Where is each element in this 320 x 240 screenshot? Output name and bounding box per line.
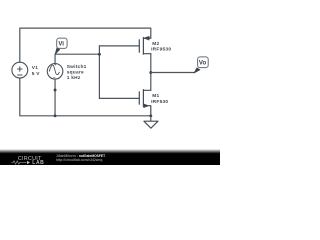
wire V1 bottom / bottom rail — [20, 78, 151, 116]
wire V1 top / VDD top rail / M2 source — [20, 28, 151, 62]
wire M2 drain to node Vo to M1 drain — [150, 54, 152, 91]
node junction Vi wire to gate bus — [98, 53, 101, 56]
wire Switch1 top to node Vi — [55, 54, 99, 63]
voltage source Switch1 — [47, 64, 63, 80]
wire M1 gate — [99, 97, 139, 99]
ground — [144, 116, 158, 128]
node junction M1 source / ground — [149, 114, 152, 117]
node junction Switch1-rail — [54, 114, 57, 117]
node flag Vo — [194, 57, 208, 73]
footer watermark bar — [0, 149, 220, 166]
wire M2 gate — [99, 45, 139, 47]
logo CircuitLab — [0, 0, 220, 165]
wire Switch1 bottom to rail — [54, 79, 56, 116]
transistor M1 (NMOS IRF530) — [139, 90, 151, 116]
node junction Switch1 pin — [54, 89, 57, 92]
transistor M2 (PMOS IRF9530) — [139, 36, 151, 54]
node Vo junction — [149, 71, 152, 74]
voltage source V1 — [12, 62, 28, 78]
wire node Vo to Vo flag — [151, 72, 195, 74]
svg-text:LAB: LAB — [32, 160, 44, 165]
node flag Vi — [55, 38, 67, 54]
svg-text:http://circuitlab.com/c342wnq: http://circuitlab.com/c342wnq — [56, 158, 102, 162]
wire gate bus vertical — [98, 46, 100, 99]
